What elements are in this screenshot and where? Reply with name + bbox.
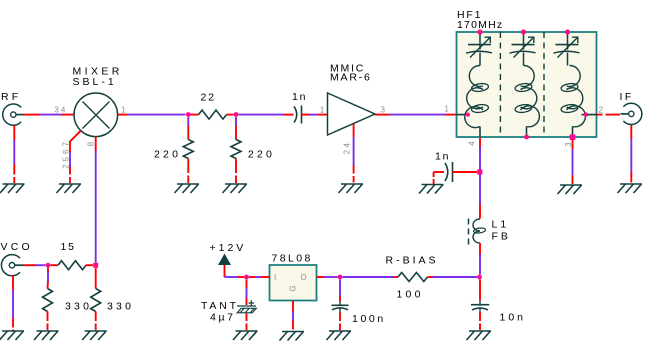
connector J2 IF — [621, 103, 642, 124]
svg-text:RF: RF — [1, 91, 21, 103]
wire R15 to node F — [86, 264, 93, 266]
trimmer capacitor CT2 — [510, 33, 536, 66]
wire node B to C 1n — [239, 114, 294, 116]
wire mixer pin 2567 to ground — [70, 131, 81, 183]
mixer U1 SBL-1 body — [74, 93, 118, 137]
wire C10n to ground — [479, 312, 481, 330]
svg-text:TANT: TANT — [201, 300, 239, 312]
wire C100n to ground — [339, 313, 341, 331]
wire HF1 pin2 to IF — [597, 114, 621, 116]
label 220 a — [154, 149, 181, 161]
inductor coil 2 HF1 — [515, 65, 540, 137]
wire 78L08 out to node H — [317, 276, 338, 278]
label 330 a — [65, 300, 92, 312]
wire R330a to ground — [47, 312, 49, 331]
pin 2567 label mixer — [62, 139, 71, 169]
connector J3 VCO — [1, 255, 23, 276]
op-amp U2 MMIC MAR-6 — [328, 93, 376, 135]
svg-text:1n: 1n — [435, 151, 450, 163]
pin 3 label hf1 — [564, 141, 573, 147]
pin 1 label hf1 — [444, 105, 450, 114]
connector J1 RF — [3, 104, 24, 125]
resistor 15 — [58, 261, 86, 270]
svg-text:1: 1 — [444, 105, 450, 114]
junction top CT3 — [565, 29, 570, 34]
power +12V symbol — [218, 254, 231, 266]
capacitor 100n — [332, 301, 349, 313]
resistor 220 b — [231, 140, 241, 159]
capacitor C 1n input — [294, 106, 302, 124]
ground under HF1 pin3 — [558, 185, 583, 194]
wire C1n to MMIC pin1 — [302, 114, 328, 116]
node B junction — [234, 112, 239, 117]
label 4u7 — [210, 312, 236, 324]
svg-text:330: 330 — [107, 300, 134, 312]
pin 4 label hf1 — [468, 140, 477, 146]
label MMIC — [330, 62, 365, 74]
wire TANT to ground — [246, 314, 248, 331]
label 100n — [352, 313, 386, 325]
node F junction — [93, 263, 98, 268]
wire node B to R220b — [235, 117, 237, 140]
label TANT — [201, 300, 239, 312]
wire node C to L1 — [479, 175, 481, 219]
wire HF1 pin4 down — [479, 138, 481, 170]
wire VCO to node E — [24, 264, 46, 266]
svg-text:G: G — [289, 284, 298, 291]
svg-text:220: 220 — [248, 149, 275, 161]
label 22 — [201, 92, 216, 104]
ground under C100n — [327, 331, 352, 340]
svg-text:3: 3 — [381, 106, 387, 115]
junction coil2 bottom — [524, 135, 529, 140]
resistor 330 b — [91, 289, 101, 312]
node C junction — [477, 169, 482, 174]
label 10n — [500, 312, 527, 324]
node E junction — [46, 263, 51, 268]
trimmer capacitor CT3 — [554, 33, 580, 66]
wire R220b to ground — [235, 159, 237, 184]
ground under R220b — [223, 184, 248, 193]
wire HF1 pin3 to ground — [572, 140, 574, 184]
pin 34 label — [54, 106, 67, 115]
ground under C10n — [467, 331, 492, 340]
ground under R330a — [34, 331, 59, 340]
svg-text:220: 220 — [154, 149, 181, 161]
svg-text:L1: L1 — [492, 219, 510, 231]
svg-text:O: O — [301, 273, 308, 282]
filter HF1 box — [457, 32, 597, 137]
pin O label — [301, 273, 308, 282]
svg-text:+12V: +12V — [210, 242, 247, 254]
wire node F to R330b — [95, 268, 97, 289]
svg-text:330: 330 — [65, 300, 92, 312]
node H junction — [338, 275, 343, 280]
resistor R-BIAS 100 — [398, 273, 428, 282]
svg-text:78L08: 78L08 — [272, 253, 313, 265]
tap link coil3 — [582, 114, 588, 116]
ground under R330b — [82, 331, 107, 340]
svg-text:10n: 10n — [500, 312, 527, 324]
svg-text:2: 2 — [599, 106, 605, 115]
label FB — [492, 231, 511, 243]
inductor coil 3 HF1 — [561, 65, 586, 137]
svg-text:100: 100 — [397, 289, 424, 301]
wire node D to C10n — [479, 280, 481, 301]
svg-text:FB: FB — [492, 231, 511, 243]
ground under MMIC — [339, 184, 364, 193]
junction top CT1 — [477, 29, 482, 34]
wire node G to TANT — [246, 280, 248, 306]
wire RF to mixer pin 34 — [24, 114, 75, 116]
ground under R220a — [175, 184, 200, 193]
svg-text:1: 1 — [320, 106, 326, 115]
svg-text:34: 34 — [54, 106, 67, 115]
wire node A to R220a — [187, 117, 189, 140]
node A junction — [186, 112, 191, 117]
wire R330b to ground — [95, 312, 97, 331]
svg-text:22: 22 — [201, 92, 216, 104]
label IF — [620, 91, 634, 103]
capacitor 10n — [471, 301, 489, 313]
svg-text:4µ7: 4µ7 — [210, 312, 236, 324]
svg-text:IF: IF — [620, 91, 634, 103]
wire node E to R15 — [51, 264, 59, 266]
ground under C1n2 — [419, 185, 444, 194]
ground under VCO — [0, 331, 24, 340]
svg-text:15: 15 — [61, 241, 76, 253]
pin G label — [289, 284, 298, 291]
pin 3 label mmic — [381, 106, 387, 115]
svg-text:4: 4 — [468, 140, 477, 146]
resistor 22 — [199, 110, 227, 119]
wire L1 to node D — [479, 243, 481, 275]
wire node H to R-BIAS — [343, 276, 399, 278]
label MIXER — [73, 66, 123, 78]
label R-BIAS — [386, 255, 439, 267]
ground under TANT — [233, 331, 258, 340]
svg-text:MAR-6: MAR-6 — [330, 72, 372, 84]
label L1 — [492, 219, 510, 231]
wire R220a to ground — [187, 159, 189, 184]
svg-text:170MHz: 170MHz — [457, 19, 503, 31]
tap wire HF1 pin2 — [588, 114, 597, 116]
label 1n decoupling — [435, 151, 450, 163]
node D junction — [477, 275, 482, 280]
pin 1 label mmic — [320, 106, 326, 115]
wire node G to 78L08 in — [249, 276, 270, 278]
resistor 220 a — [183, 140, 193, 159]
wire RF ground leg — [13, 126, 15, 184]
wire node H to C100n — [339, 280, 341, 302]
svg-text:VCO: VCO — [1, 241, 33, 253]
svg-text:R-BIAS: R-BIAS — [386, 255, 439, 267]
svg-text:100n: 100n — [352, 313, 386, 325]
label RF — [1, 91, 21, 103]
wire MMIC pin24 to ground — [353, 124, 355, 183]
ground under 78L08 — [280, 332, 305, 341]
label 220 b — [248, 149, 275, 161]
wire C1n2 to ground — [434, 172, 444, 184]
tap wire HF1 pin1 — [457, 114, 466, 116]
ground under mixer 2567 — [57, 184, 82, 193]
junction top CT2 — [521, 29, 526, 34]
ground under RF — [0, 184, 25, 193]
wire mixer pin1 to node A — [118, 114, 186, 116]
wire mixer pin 8 down — [95, 137, 97, 263]
pin 2 label hf1 — [599, 106, 605, 115]
pin I label — [274, 273, 277, 282]
label 330 b — [107, 300, 134, 312]
pin 24 label mmic — [343, 141, 352, 155]
wire R22 to node B — [227, 114, 234, 116]
svg-text:I: I — [274, 273, 277, 282]
trimmer capacitor CT1 — [466, 33, 492, 66]
tap junction coil3 — [584, 112, 588, 116]
svg-text:24: 24 — [343, 141, 352, 155]
inductor L1 ferrite bead — [469, 219, 486, 245]
wire IF to ground — [630, 125, 632, 183]
svg-text:1: 1 — [121, 106, 127, 115]
label 100 — [397, 289, 424, 301]
ground under IF — [618, 184, 643, 193]
wire node E to R330a — [47, 268, 50, 289]
node G junction — [244, 275, 249, 280]
capacitor C 1n decoupling — [445, 162, 453, 182]
junction coil3 bottom — [570, 134, 576, 140]
resistor 330 a — [43, 289, 53, 312]
wire 78L08 gnd pin — [292, 301, 294, 330]
label 78L08 — [272, 253, 313, 265]
label 15 — [61, 241, 76, 253]
wire MMIC out to HF1 pin1 — [375, 114, 457, 116]
label SBL-1 — [73, 76, 117, 88]
wire node A to R 22 — [191, 114, 199, 116]
capacitor TANT 4u7 — [237, 300, 256, 313]
tap junction coil1 — [466, 113, 470, 117]
wire C1n2 to node C — [453, 171, 478, 173]
pin 1 label mixer — [121, 106, 127, 115]
svg-text:1n: 1n — [292, 91, 307, 103]
pin 8 label mixer — [87, 141, 96, 147]
wire +12V to node G — [225, 265, 245, 277]
label 1n input — [292, 91, 307, 103]
label +12V — [210, 242, 247, 254]
label VCO — [1, 241, 33, 253]
regulator U3 78L08 — [270, 265, 317, 301]
wire R-BIAS to node D — [428, 276, 478, 278]
svg-text:SBL-1: SBL-1 — [73, 76, 117, 88]
label HF1 — [457, 9, 482, 21]
wire VCO ground leg — [12, 275, 14, 331]
label 170MHz — [457, 19, 503, 31]
inductor coil 1 HF1 — [465, 65, 489, 137]
label MAR-6 — [330, 72, 372, 84]
svg-text:8: 8 — [87, 141, 96, 147]
